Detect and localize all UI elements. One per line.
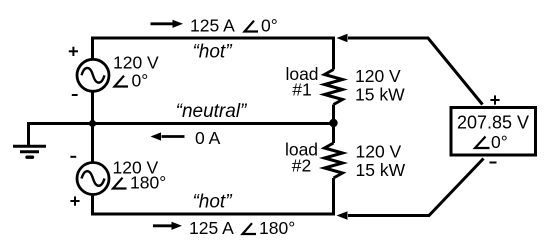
V2 angle label 180 deg xyxy=(113,173,166,193)
wire: left vertical middle segment xyxy=(91,91,94,163)
ground xyxy=(13,122,46,157)
source V1 (120 V angle 0) xyxy=(77,59,109,91)
svg-text:“neutral”: “neutral” xyxy=(176,101,248,122)
wire: top hot bus xyxy=(91,37,335,40)
wire: bottom meter lead with arrow xyxy=(337,159,484,220)
V1 minus sign xyxy=(72,94,78,96)
svg-text:125 A: 125 A xyxy=(190,16,235,36)
V1 angle label 0 deg xyxy=(115,71,149,91)
wire: load branch vertical top xyxy=(332,37,335,70)
current arrow neutral (0 A) xyxy=(151,128,221,148)
resistor load #1 xyxy=(325,70,343,105)
svg-text:120 V: 120 V xyxy=(355,66,401,86)
svg-text:207.85 V: 207.85 V xyxy=(457,113,529,133)
svg-text:0°: 0° xyxy=(132,71,149,91)
current arrow bottom (125 A angle 180) xyxy=(153,218,295,238)
V1 plus sign xyxy=(69,47,78,56)
svg-text:0°: 0° xyxy=(261,16,278,36)
svg-text:120 V: 120 V xyxy=(113,53,159,73)
meter minus sign xyxy=(490,162,497,164)
wire: bottom hot bus xyxy=(91,213,335,216)
V2 minus sign xyxy=(70,156,76,158)
svg-text:120 V: 120 V xyxy=(356,142,402,162)
svg-text:“hot”: “hot” xyxy=(192,42,233,63)
svg-text:180°: 180° xyxy=(130,173,166,193)
node: neutral / load junction xyxy=(329,119,337,127)
wire: left vertical top segment xyxy=(91,37,94,60)
meter plus sign xyxy=(490,95,499,104)
V2 plus sign xyxy=(70,196,79,205)
svg-text:#1: #1 xyxy=(292,80,311,100)
current arrow top (125 A angle 0) xyxy=(151,16,278,36)
wire: neutral bus xyxy=(29,122,336,125)
voltmeter reading box 207.85 V xyxy=(451,108,536,156)
node: neutral / source junction xyxy=(89,120,96,127)
wire: load branch vertical bottom xyxy=(332,178,335,214)
svg-text:#2: #2 xyxy=(292,156,311,176)
svg-text:180°: 180° xyxy=(259,218,295,238)
svg-text:0°: 0° xyxy=(491,132,508,152)
wire: load branch vertical middle xyxy=(332,105,335,144)
svg-text:0 A: 0 A xyxy=(195,128,221,148)
svg-text:“hot”: “hot” xyxy=(192,192,233,213)
wire: left vertical bottom segment xyxy=(91,194,94,214)
svg-text:15 kW: 15 kW xyxy=(356,160,406,180)
svg-text:125 A: 125 A xyxy=(189,218,234,238)
svg-text:15 kW: 15 kW xyxy=(355,85,405,105)
wire: top meter lead with arrow xyxy=(337,34,483,105)
source V2 (120 V angle 180) xyxy=(77,163,109,195)
resistor load #2 xyxy=(325,143,343,178)
